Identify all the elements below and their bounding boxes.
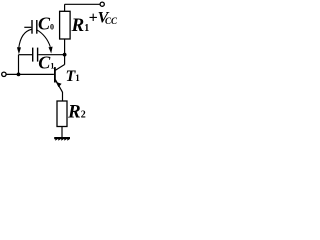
arrow: C0 right terminal down to collector node: [37, 30, 53, 54]
capacitor C1: [19, 48, 65, 62]
capacitor C0: [24, 20, 37, 34]
wire: top rail down to R1: [64, 4, 66, 11]
arrow: C0 left terminal down to input node: [17, 29, 32, 54]
terminal +VCC: [100, 2, 104, 6]
svg-text:CC: CC: [105, 16, 118, 26]
wire: C1 left lead down to input wire: [18, 55, 20, 75]
transistor T1: [54, 65, 65, 102]
node: collector junction dot: [63, 53, 67, 57]
wire: +VCC top rail: [65, 3, 100, 5]
resistor R1: [60, 11, 71, 39]
node: input junction dot: [17, 73, 21, 77]
wire: input terminal to base: [6, 73, 54, 75]
resistor R2: [57, 101, 67, 127]
wire: R2 bottom to ground: [61, 127, 63, 138]
terminal: input: [2, 72, 6, 76]
wire: R1 bottom to collector: [64, 39, 66, 65]
ground: [54, 137, 70, 140]
